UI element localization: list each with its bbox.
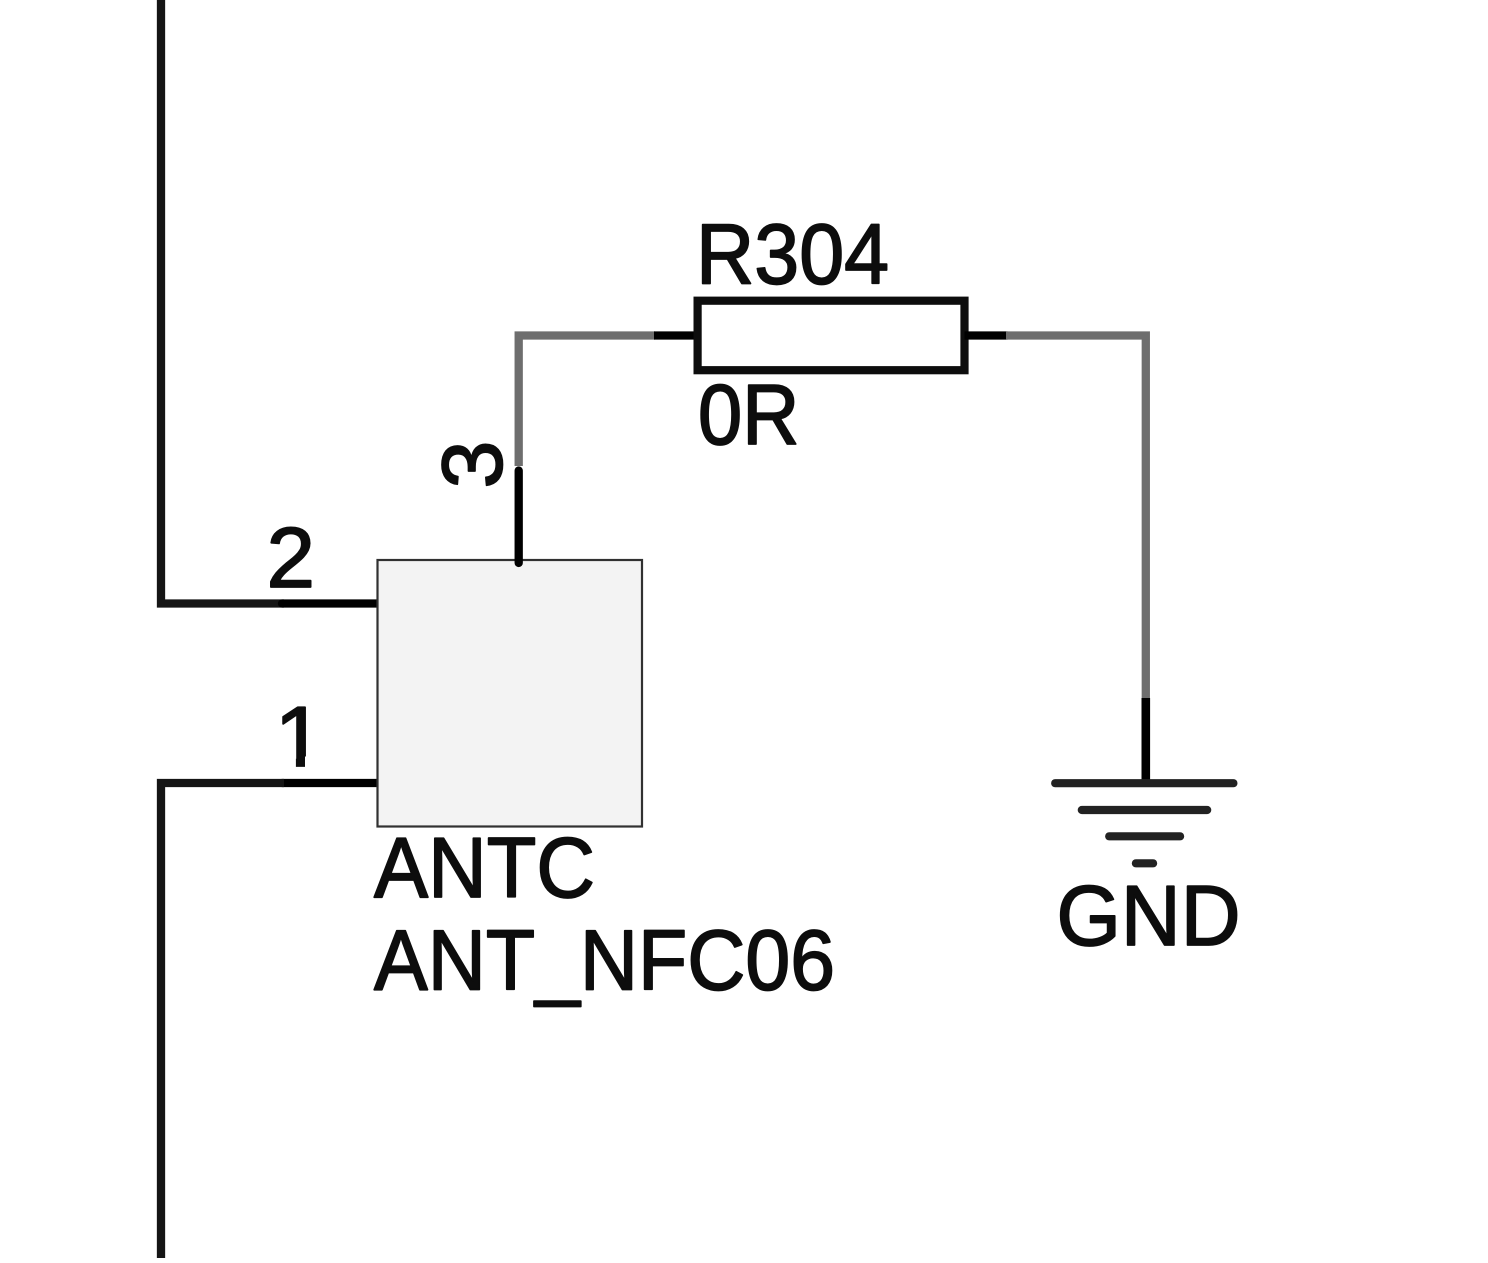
svg-text:3: 3 — [426, 441, 521, 489]
pin 2 stub — [282, 599, 378, 607]
mask of 1 foot serif left — [272, 757, 296, 771]
GND pin stub — [1142, 698, 1151, 783]
pin 1 stub — [282, 779, 378, 787]
svg-text:ANTC: ANTC — [374, 821, 595, 916]
svg-text:R304: R304 — [696, 207, 889, 302]
pin 3 stub — [515, 471, 523, 564]
resistor R304 body — [698, 301, 965, 371]
wire gray resistor to GND — [1006, 336, 1146, 701]
ground bar 3 — [1109, 832, 1180, 840]
ground bar 4 — [1136, 859, 1153, 867]
svg-text:0R: 0R — [698, 368, 800, 463]
wire net left vertical + to pin 2 — [161, 0, 284, 604]
wire gray pin3 to resistor — [519, 336, 655, 467]
svg-text:1: 1 — [275, 690, 325, 785]
svg-text:2: 2 — [267, 511, 316, 606]
ground bar 1 — [1055, 779, 1233, 787]
svg-text:ANT_NFC06: ANT_NFC06 — [374, 914, 835, 1009]
mask of 1 foot serif right — [305, 757, 327, 771]
resistor R304 right lead — [965, 331, 1008, 339]
resistor R304 left lead — [654, 331, 698, 339]
wire net pin1 to bottom edge — [161, 783, 284, 1263]
ground bar 2 — [1082, 806, 1207, 814]
svg-text:GND: GND — [1057, 869, 1241, 964]
component U ANTC box — [378, 560, 643, 827]
